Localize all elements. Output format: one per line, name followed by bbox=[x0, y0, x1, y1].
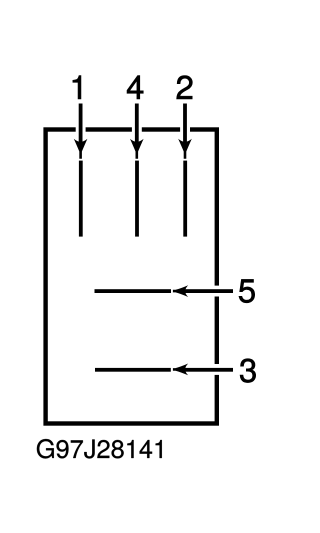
arrowhead pin 4 bbox=[130, 139, 144, 159]
pin 2 terminal line bbox=[183, 161, 187, 237]
pin 4 terminal line bbox=[135, 161, 139, 237]
arrowhead pin 2 bbox=[178, 139, 192, 159]
label 4 bbox=[127, 76, 143, 99]
gap in top border at pin 4 wire bbox=[132, 127, 142, 133]
wire arrow stem pin 2 bbox=[183, 104, 187, 144]
figure code G97J28141 bbox=[37, 439, 162, 458]
arrowhead pin 5 bbox=[173, 285, 188, 297]
gap in right border at pin 5 wire bbox=[214, 286, 221, 297]
pin 1 terminal line bbox=[79, 161, 83, 237]
pin 5 terminal line bbox=[95, 289, 172, 293]
wire arrow stem pin 1 bbox=[79, 104, 83, 144]
label 2 bbox=[177, 76, 193, 99]
gap in top border at pin 1 wire bbox=[76, 127, 86, 133]
label 1 bbox=[73, 76, 81, 99]
pin 3 terminal line bbox=[95, 368, 171, 372]
gap in top border at pin 2 wire bbox=[180, 127, 190, 133]
wire arrow stem pin 3 bbox=[184, 368, 233, 372]
connector body outline bbox=[46, 130, 217, 424]
wire arrow stem pin 4 bbox=[135, 104, 139, 144]
label 5 bbox=[239, 279, 255, 302]
arrowhead pin 1 bbox=[74, 139, 88, 159]
wire arrow stem pin 5 bbox=[184, 289, 233, 293]
label 3 bbox=[240, 359, 256, 383]
gap in right border at pin 3 wire bbox=[214, 364, 221, 375]
arrowhead pin 3 bbox=[173, 364, 188, 376]
